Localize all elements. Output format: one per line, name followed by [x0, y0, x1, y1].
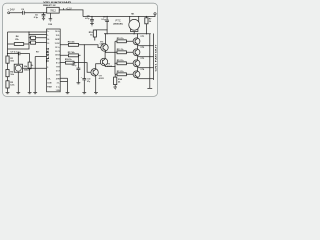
- svg-text:15: 15: [47, 43, 49, 45]
- transistor VT5: [100, 41, 109, 52]
- wire mid vertical A: [29, 54, 31, 93]
- wire pin2 stub: [29, 34, 47, 36]
- svg-text:R12 1k: R12 1k: [117, 60, 125, 62]
- resistor R16: [60, 40, 101, 47]
- terminal J2: [154, 13, 156, 15]
- svg-text:R17: R17: [36, 51, 39, 53]
- resistor R3: [6, 81, 15, 88]
- svg-text:1k: 1k: [31, 65, 33, 67]
- connector CN1: [154, 34, 158, 81]
- svg-text:RB63T-12: RB63T-12: [43, 5, 57, 7]
- svg-text:0.47µ: 0.47µ: [72, 64, 76, 67]
- svg-text:R13 1k: R13 1k: [117, 71, 125, 73]
- svg-text:12 V+: 12 V+: [55, 47, 60, 49]
- wire left mid: [8, 53, 30, 55]
- svg-text:R10 1k: R10 1k: [117, 38, 125, 40]
- svg-text:5: 5: [47, 67, 48, 69]
- wire regulator ground: [49, 13, 51, 19]
- svg-text:13 OC: 13 OC: [55, 43, 61, 45]
- transistor VT6: [100, 52, 112, 68]
- resistor R4: [8, 35, 30, 45]
- resistor R7: [145, 16, 153, 34]
- svg-text:R11 1k: R11 1k: [117, 49, 124, 51]
- capacitor C9: [101, 16, 109, 34]
- svg-text:2 1+: 2 1+: [56, 86, 59, 88]
- svg-text:+: +: [81, 77, 82, 79]
- svg-text:A1015: A1015: [99, 77, 104, 80]
- resistor R14: [114, 74, 123, 87]
- wire collector bus: [104, 33, 151, 35]
- resistor R17: [60, 51, 80, 57]
- svg-text:100mV: 100mV: [24, 70, 31, 72]
- svg-text:PWM: PWM: [47, 86, 52, 88]
- resistor R2: [6, 70, 15, 77]
- transistor VT3: [133, 57, 153, 68]
- svg-text:R19 1k: R19 1k: [65, 59, 73, 61]
- svg-text:16: 16: [47, 39, 49, 41]
- capacitor C8: [85, 15, 94, 23]
- svg-text:COM: COM: [48, 24, 53, 26]
- resistor R6: [29, 41, 47, 44]
- svg-text:16 2+: 16 2+: [55, 31, 59, 33]
- svg-text:7812: 7812: [50, 9, 56, 13]
- transistor VT1: [133, 34, 153, 46]
- trimmer RP1: [14, 53, 46, 93]
- transistor VT4: [133, 68, 153, 79]
- ground ticks bottom: [6, 83, 98, 94]
- resistor R10: [115, 38, 133, 43]
- schematic frame: [3, 3, 158, 96]
- wire +24V input: [10, 12, 47, 14]
- regulator VR1: [47, 7, 60, 13]
- resistor R5: [29, 36, 47, 39]
- wire pin stubs to ground: [60, 78, 67, 92]
- transistor VT2: [133, 46, 153, 57]
- wire right bus: [149, 34, 151, 88]
- svg-text:(080DUE): (080DUE): [113, 24, 123, 26]
- resistor R15: [28, 62, 33, 69]
- wire VT5 emitter to bus: [106, 51, 115, 53]
- wire VT6 emitter to bus: [105, 66, 115, 68]
- IC U1 TL494: [45, 29, 60, 92]
- svg-text:14 RF: 14 RF: [55, 38, 60, 41]
- wire loop right: [8, 32, 30, 49]
- svg-text:11 C2: 11 C2: [55, 51, 60, 53]
- resistor R12: [115, 60, 133, 65]
- motor M1: [129, 19, 140, 30]
- background: [0, 0, 161, 100]
- svg-text:3: 3: [47, 55, 48, 57]
- svg-text:1+: 1+: [47, 31, 49, 33]
- capacitor C5: [34, 12, 46, 19]
- resistor R13: [115, 71, 133, 76]
- svg-text:15 2-: 15 2-: [56, 35, 60, 37]
- capacitor C7: [19, 52, 20, 56]
- wire +12V output: [59, 10, 83, 17]
- transistor VT7: [91, 64, 104, 93]
- svg-text:C945: C945: [100, 42, 104, 45]
- svg-text:R16 4k: R16 4k: [68, 40, 76, 43]
- wire loop left: [7, 32, 9, 93]
- resistor R19: [60, 59, 91, 72]
- ground (C8): [90, 24, 94, 26]
- wire +12V rail: [83, 15, 155, 17]
- capacitor C10: [81, 44, 91, 92]
- resistor R1: [6, 56, 15, 63]
- ground (VR1): [49, 19, 53, 21]
- svg-text:10 E2: 10 E2: [55, 55, 60, 57]
- svg-text:4: 4: [47, 58, 48, 61]
- wire mid vertical B: [35, 57, 46, 93]
- wire motor legs: [130, 17, 139, 34]
- resistor R18: [89, 29, 108, 44]
- svg-text:R17 4k: R17 4k: [68, 51, 76, 54]
- svg-text:COM: COM: [47, 82, 52, 84]
- ground (C5): [42, 18, 45, 20]
- resistor R11: [115, 49, 133, 54]
- svg-text:47µ: 47µ: [87, 80, 90, 83]
- svg-text:8 C1: 8 C1: [56, 63, 60, 65]
- svg-text:3 1-: 3 1-: [57, 82, 60, 84]
- capacitor C11: [72, 55, 81, 83]
- svg-text:+ 24V: + 24V: [7, 8, 15, 12]
- terminal J1: [8, 12, 10, 14]
- wire base bus: [114, 41, 116, 74]
- wire loop top: [8, 31, 47, 33]
- capacitor C6 (inline): [21, 9, 25, 15]
- svg-text:PTC: PTC: [116, 18, 121, 22]
- svg-text:CN1 FAN OUT: CN1 FAN OUT: [154, 43, 157, 71]
- IC U1 pin labels right: [55, 31, 61, 92]
- IC U1 pin labels left: [47, 31, 52, 88]
- ground (R14): [113, 87, 117, 89]
- svg-text:9 E1: 9 E1: [56, 59, 60, 61]
- svg-text:VR1 KIA7812API: VR1 KIA7812API: [43, 1, 72, 4]
